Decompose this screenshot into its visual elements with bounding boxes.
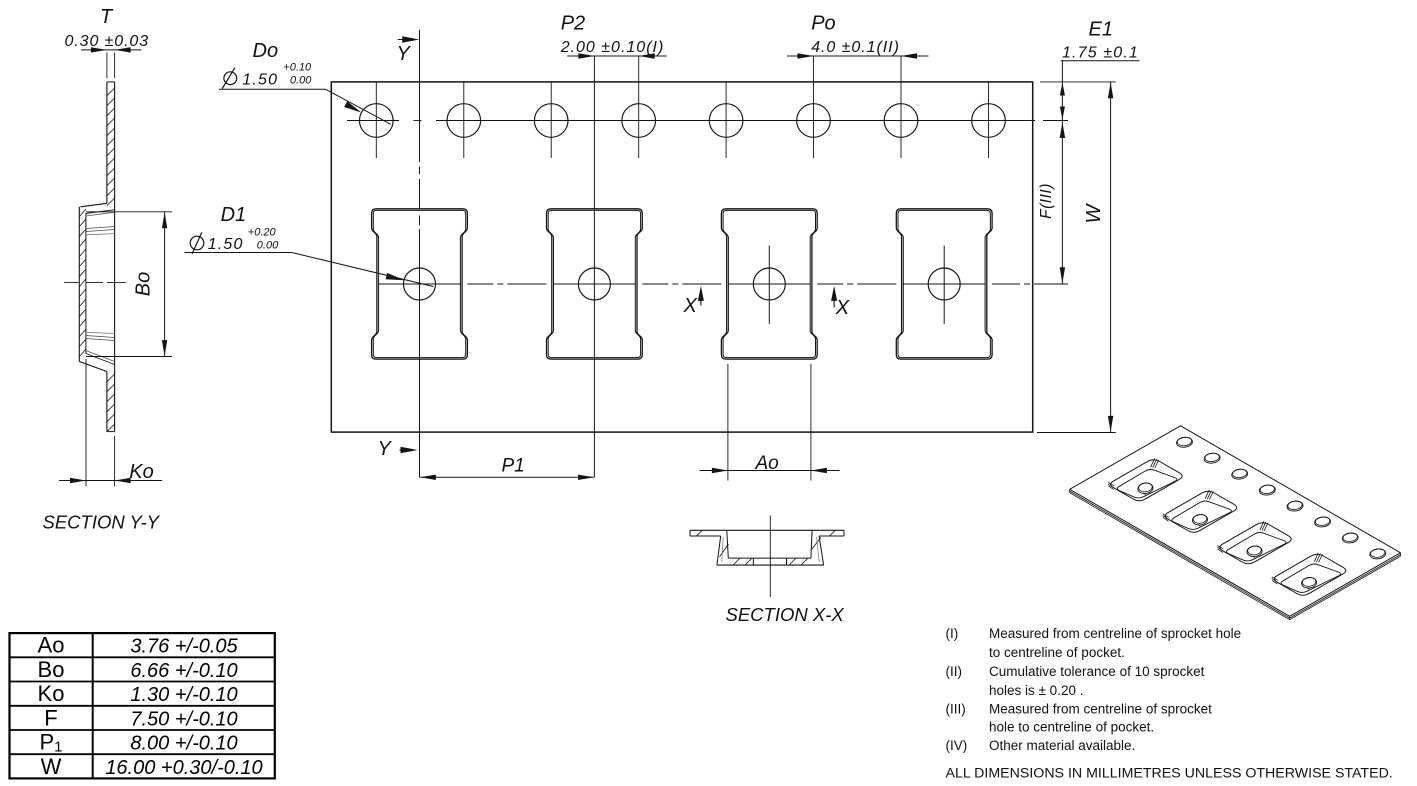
dimension T line	[81, 49, 142, 51]
dimension Ko extension line right	[114, 436, 116, 486]
Do leader line	[326, 89, 391, 124]
dimension W arrows	[1108, 82, 1113, 98]
svg-text:Bo: Bo	[133, 272, 155, 296]
section line Y-Y (vertical through pocket 1)	[419, 30, 421, 162]
dimension E1 vertical line	[1061, 61, 1063, 284]
dimension E1 line (underline)	[1061, 60, 1140, 62]
svg-text:1.50: 1.50	[242, 72, 278, 89]
pocket 3 vertical centerline	[768, 246, 770, 324]
svg-text:T: T	[100, 6, 114, 28]
svg-text:ALL DIMENSIONS IN MILLIMETRES: ALL DIMENSIONS IN MILLIMETRES UNLESS OTH…	[946, 766, 1393, 782]
svg-text:Y: Y	[378, 438, 393, 460]
sprocket hole 7 vertical centerline	[900, 56, 902, 158]
section X-X left end	[689, 530, 691, 536]
dimension W line	[1110, 82, 1112, 432]
Do leader arrowhead	[344, 101, 361, 112]
pocket 4 vertical centerline	[943, 246, 945, 324]
svg-text:+0.10: +0.10	[283, 62, 312, 74]
sprocket hole 4 vertical centerline	[638, 56, 640, 158]
svg-text:Ko: Ko	[38, 681, 65, 706]
dimension W top extension line	[1040, 81, 1116, 83]
sprocket hole 8 vertical centerline	[988, 82, 990, 158]
section X-X left inner wall	[727, 530, 729, 558]
svg-text:16.00 +0.30/-0.10: 16.00 +0.30/-0.10	[105, 757, 262, 779]
dimension T extension lines	[106, 53, 108, 79]
svg-text:Ko: Ko	[129, 461, 153, 483]
section Y-Y tape strip (right face, full)	[114, 82, 116, 432]
dimension F(III) arrows	[1060, 122, 1065, 138]
svg-text:D1: D1	[221, 204, 247, 226]
pocket 2 centre hole D1	[578, 268, 610, 300]
sprocket hole 8	[972, 104, 1006, 138]
dimension Ko arrows	[70, 478, 86, 483]
pocket 2 vertical centerline (P2 extension)	[593, 56, 595, 477]
svg-text:8.00 +/-0.10: 8.00 +/-0.10	[130, 733, 237, 755]
D1 leader arrowhead	[386, 273, 404, 280]
section Y arrow (bottom)	[400, 449, 414, 451]
svg-text:(I): (I)	[946, 626, 959, 641]
svg-text:(III): (III)	[946, 702, 966, 717]
sprocket centerline extension right (for E1/F dims)	[1043, 120, 1068, 122]
section Y-Y pocket top wall detail lines	[86, 212, 115, 216]
section X-X wall detail lines	[722, 537, 723, 562]
section X-X bottom line	[717, 564, 824, 566]
pocket 4 centre hole D1	[928, 268, 960, 300]
section X arrow (right)	[833, 290, 835, 307]
svg-text:to centreline of pocket.: to centreline of pocket.	[989, 645, 1125, 660]
svg-text:Po: Po	[811, 13, 835, 35]
pocket 1 outline (inner)	[373, 210, 465, 357]
Do diameter symbol	[224, 72, 237, 85]
svg-text:F: F	[44, 705, 57, 730]
svg-text:1.30 +/-0.10: 1.30 +/-0.10	[130, 684, 237, 706]
pocket 1 outline (outer)	[372, 209, 468, 359]
svg-text:Bo: Bo	[38, 657, 65, 682]
sprocket hole 3	[534, 104, 568, 138]
svg-text:E1: E1	[1089, 19, 1113, 41]
3D view sprocket holes	[1176, 436, 1193, 448]
section Y-Y strip bottom end	[107, 431, 115, 433]
dimension E1 arrows	[1060, 83, 1065, 96]
pocket 2 outline (outer)	[547, 209, 643, 359]
svg-text:1.75 ±0.1: 1.75 ±0.1	[1062, 45, 1139, 62]
svg-text:0.00: 0.00	[290, 75, 312, 87]
sprocket hole 2	[447, 104, 481, 138]
section Y-Y pocket floor hatching	[79, 209, 86, 217]
section Y-Y pocket bottom wall detail lines	[86, 351, 115, 362]
D1 leader underline	[185, 252, 292, 254]
svg-text:0.00: 0.00	[257, 240, 279, 252]
section Y arrow (top)	[398, 39, 415, 41]
section X-X right outer wall	[819, 536, 824, 565]
section Y-Y lower strip hatching	[107, 374, 115, 382]
svg-text:Ao: Ao	[755, 453, 779, 474]
svg-text:SECTION Y-Y: SECTION Y-Y	[43, 512, 161, 533]
section Y-Y tape strip upper (left face)	[106, 82, 108, 203]
dimension T arrows	[91, 47, 107, 52]
dimension Ao extension line left	[727, 364, 729, 481]
section X-X hole edge left	[752, 558, 754, 565]
dimension Ao line	[700, 470, 840, 472]
sprocket hole 1	[360, 104, 394, 138]
dimension Po arrows	[798, 53, 814, 58]
dimension P2 line	[567, 55, 666, 57]
svg-text:6.66 +/-0.10: 6.66 +/-0.10	[130, 660, 237, 682]
parameter table grid	[10, 633, 275, 778]
carrier tape outline (top view)	[331, 82, 1032, 432]
dimension Ko extension line left	[85, 359, 87, 486]
section X-X hatching	[697, 530, 703, 536]
3D view plate outline	[1070, 426, 1401, 617]
svg-text:W: W	[41, 754, 62, 779]
sprocket hole 2 vertical centerline	[463, 82, 465, 158]
svg-text:2.00 ±0.10(I): 2.00 ±0.10(I)	[560, 39, 665, 56]
svg-text:3.76 +/-0.05: 3.76 +/-0.05	[130, 636, 238, 658]
D1 leader line	[292, 253, 434, 287]
section X-X hole edge right	[786, 558, 788, 565]
dimension Ao arrows	[712, 468, 728, 473]
dimension P2 arrows	[578, 53, 594, 58]
svg-text:holes is ± 0.20 .: holes is ± 0.20 .	[989, 683, 1083, 698]
svg-text:+0.20: +0.20	[248, 227, 277, 239]
svg-text:(IV): (IV)	[946, 738, 968, 753]
dimension Bo arrows	[162, 212, 167, 228]
sprocket row centerline	[347, 120, 399, 122]
3D view plate thickness edge 1	[1070, 491, 1401, 618]
svg-text:hole to centreline of pocket.: hole to centreline of pocket.	[989, 720, 1154, 735]
pocket 3 outline (inner)	[723, 210, 815, 357]
dimension Ko line	[59, 480, 162, 482]
svg-text:Measured from centreline of sp: Measured from centreline of sprocket	[989, 702, 1212, 717]
dimension W bottom extension line	[1037, 432, 1116, 434]
section X-X right end	[843, 530, 845, 536]
svg-text:Y: Y	[397, 43, 412, 65]
section X arrow (left)	[700, 290, 702, 306]
dimension Ao extension line right	[810, 364, 812, 481]
pocket 2 outline (inner)	[548, 210, 640, 357]
section X-X right flange bottom	[819, 535, 844, 537]
svg-text:Ao: Ao	[38, 633, 65, 658]
svg-text:Measured from centreline of sp: Measured from centreline of sprocket hol…	[989, 626, 1241, 641]
svg-text:W: W	[1083, 202, 1105, 223]
svg-text:(II): (II)	[946, 664, 963, 679]
svg-text:Do: Do	[253, 40, 279, 62]
pocket 3 outline (outer)	[721, 209, 817, 359]
section Y-Y pocket top chamfer outer	[81, 203, 107, 207]
pocket 3 centre hole D1	[753, 268, 785, 300]
sprocket hole 5 vertical centerline	[725, 82, 727, 158]
sprocket hole 6	[797, 104, 831, 138]
section Y-Y pocket floor inner face	[85, 213, 87, 354]
section X-X centerline	[769, 516, 771, 597]
svg-text:P1: P1	[502, 456, 525, 477]
dimension Po line	[787, 55, 928, 57]
Do leader underline	[219, 88, 326, 90]
svg-text:SECTION X-X: SECTION X-X	[726, 604, 845, 625]
pocket 1 centre hole D1	[404, 268, 436, 300]
section X-X left flange bottom	[690, 535, 721, 537]
dimension P1 arrows	[420, 475, 436, 480]
pocket row centerline / section line X-X	[378, 283, 460, 285]
svg-text:0.30 ±0.03: 0.30 ±0.03	[65, 33, 150, 50]
3D view plate thickness edge 2	[1070, 493, 1401, 620]
svg-text:Cumulative tolerance of 10 spr: Cumulative tolerance of 10 sprocket	[989, 664, 1205, 679]
section Y-Y pocket bottom chamfer outer	[79, 362, 107, 372]
section Y-Y pocket bottom wall inner	[86, 354, 115, 365]
sprocket hole 1 vertical centerline	[375, 82, 377, 158]
sprocket hole 6 vertical centerline	[813, 56, 815, 158]
section Y-Y tape strip lower (left face)	[106, 372, 108, 432]
pocket 4 outline (outer)	[896, 209, 992, 359]
svg-text:4.0 ±0.1(II): 4.0 ±0.1(II)	[811, 39, 900, 56]
sprocket hole 3 vertical centerline	[550, 82, 552, 158]
sprocket hole 7	[884, 104, 918, 138]
svg-text:X: X	[835, 297, 850, 319]
section Y-Y pocket top wall inner	[86, 210, 115, 214]
dimension P1 line	[420, 476, 595, 478]
section X-X right inner wall	[811, 530, 812, 558]
section X-X left outer wall	[717, 536, 721, 565]
svg-text:P2: P2	[561, 13, 585, 35]
3D view pockets	[1111, 460, 1183, 501]
pocket 4 outline (inner)	[898, 210, 990, 357]
svg-text:7.50 +/-0.10: 7.50 +/-0.10	[130, 708, 237, 730]
dimension Bo line	[164, 212, 166, 357]
section X-X floor top line	[728, 557, 811, 559]
section Y-Y pocket floor outer face	[78, 207, 80, 362]
section Y-Y pocket horizontal centerline	[64, 281, 79, 283]
svg-text:X: X	[683, 295, 698, 317]
svg-text:Other material available.: Other material available.	[989, 738, 1135, 753]
section Y-Y strip top end	[107, 81, 115, 83]
D1 diameter symbol	[190, 236, 204, 250]
section Y-Y upper strip hatching	[107, 88, 115, 96]
section X-X top surface line	[690, 529, 844, 531]
sprocket hole 5	[709, 104, 743, 138]
sprocket hole 4	[622, 104, 656, 138]
svg-text:1.50: 1.50	[208, 236, 244, 253]
svg-text:F(III): F(III)	[1038, 183, 1055, 219]
dimension Bo extension lines	[86, 211, 172, 213]
